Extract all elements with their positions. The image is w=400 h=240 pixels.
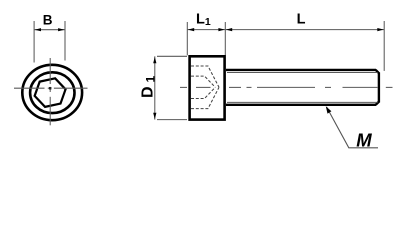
axis centerline bbox=[180, 86, 393, 88]
L arrows bbox=[226, 28, 232, 31]
screw head rectangle bbox=[190, 56, 225, 119]
threaded shaft crest outline bbox=[226, 70, 379, 105]
L dimension line bbox=[225, 29, 384, 31]
svg-text:M: M bbox=[356, 130, 372, 151]
head chamfer inner circle bbox=[30, 72, 74, 113]
head outer circle bbox=[22, 65, 82, 120]
B dimension arrows bbox=[35, 28, 41, 31]
svg-text:L1: L1 bbox=[196, 12, 211, 29]
L1 arrows bbox=[188, 28, 194, 31]
D1 extension lines bbox=[157, 56, 187, 119]
L1 dimension extension lines bbox=[187, 21, 384, 71]
thread root lines bbox=[227, 73, 378, 103]
M leader arrow bbox=[326, 106, 332, 113]
svg-text:L: L bbox=[297, 11, 306, 27]
svg-text:B: B bbox=[43, 12, 53, 27]
B dimension extension lines bbox=[34, 21, 65, 63]
D1 arrows bbox=[153, 57, 156, 63]
D1 dimension line bbox=[154, 56, 156, 119]
M leader line bbox=[327, 107, 378, 148]
hex socket hidden lines bbox=[191, 66, 219, 109]
B dimension line bbox=[34, 29, 65, 31]
centerline horizontal bbox=[14, 87, 88, 89]
L1 dimension line bbox=[187, 29, 225, 31]
centerline vertical bbox=[49, 58, 51, 125]
hex socket bbox=[32, 77, 68, 109]
svg-text:D1: D1 bbox=[140, 75, 158, 98]
center dot bbox=[49, 87, 52, 90]
